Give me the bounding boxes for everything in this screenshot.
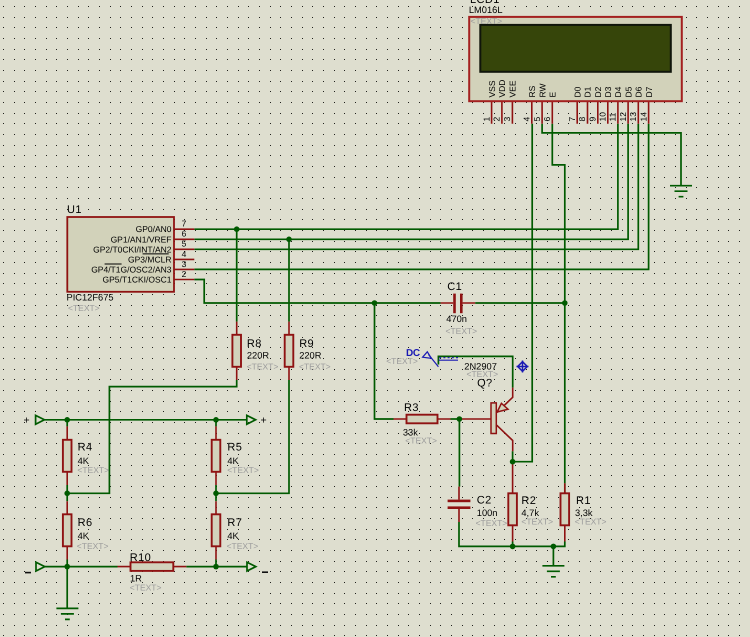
resistor R1: [561, 483, 570, 541]
svg-text:VEE: VEE: [508, 80, 518, 97]
svg-text:<TEXT>: <TEXT>: [77, 465, 109, 475]
wire D4 net: LCD pin11 down, left along y=229 to U1 GP0/AN0: [194, 124, 618, 230]
wire R4 top stub: [66, 420, 68, 427]
svg-text:11: 11: [608, 112, 618, 121]
svg-text:1: 1: [481, 117, 491, 122]
junction Q2 collector / RS / R2: [510, 459, 516, 465]
wire R9 top to GP1 wire: [288, 239, 290, 321]
svg-text:GP3/MCLR: GP3/MCLR: [128, 254, 171, 264]
svg-text:R5: R5: [227, 442, 242, 454]
svg-text:<TEXT>: <TEXT>: [471, 16, 503, 26]
svg-text:9: 9: [588, 117, 598, 122]
wire Q2 emitter up and left to DC probe: [438, 356, 512, 387]
svg-text:220R: 220R: [299, 351, 322, 361]
svg-text:LM016L: LM016L: [469, 5, 503, 15]
svg-text:2: 2: [492, 117, 502, 122]
svg-text:GP2/T0CKI/INT/AN2: GP2/T0CKI/INT/AN2: [93, 244, 172, 254]
svg-text:5: 5: [532, 117, 542, 122]
ground symbol mid bottom: [542, 546, 564, 576]
svg-text:<TEXT>: <TEXT>: [68, 303, 100, 313]
U1 pin 6 stub GP1/AN1/VREF: [174, 238, 194, 240]
junction + rail / R5: [213, 417, 219, 423]
svg-text:GP0/AN0: GP0/AN0: [136, 224, 172, 234]
svg-text:6: 6: [182, 229, 187, 239]
resistor R9: [285, 322, 294, 380]
wire D7 net: LCD pin14 down, left along y=269 to U1 GP4: [194, 124, 648, 270]
junction R3 / Q2 base / C2: [457, 416, 463, 422]
terminal arrow + left: [36, 415, 45, 424]
resistor R7: [212, 501, 221, 559]
U1 pin 4 stub GP3/MCLR: [174, 258, 194, 260]
junction GP1 wire / R9: [286, 237, 292, 243]
wire R1 top stub from E net: [564, 483, 566, 493]
svg-text:D2: D2: [593, 86, 603, 97]
svg-text:<TEXT>: <TEXT>: [227, 465, 259, 475]
overbar T1G: [105, 263, 122, 265]
wire Q2 collector node right to RS vertical: [512, 451, 514, 462]
wire R6 bottom to - rail: [66, 560, 68, 567]
svg-text:8: 8: [577, 117, 587, 122]
junction C1 wire / E net: [562, 300, 568, 306]
svg-text:3: 3: [502, 117, 512, 122]
wire R5 top stub: [215, 420, 217, 427]
svg-text:D3: D3: [603, 86, 613, 97]
svg-text:RW: RW: [537, 83, 547, 97]
U1 pin 5 stub GP2: [174, 248, 194, 250]
svg-text:+: +: [24, 414, 30, 426]
junction bottom rail / R2: [510, 544, 516, 550]
LCD display LCD1 LM016L body: [469, 17, 682, 101]
wire R2 bottom stub: [512, 542, 514, 547]
svg-text:D4: D4: [613, 86, 623, 97]
junction - rail / R7: [213, 564, 219, 570]
wire C2 bottom to bottom rail: [459, 522, 513, 546]
ground symbol bottom left: [56, 567, 78, 620]
label - right: [262, 571, 268, 573]
svg-text:D6: D6: [634, 86, 644, 97]
wire node A: C1 wire junction down to R3 left: [375, 303, 394, 419]
wire R5 bottom to R7 top: [215, 485, 217, 501]
svg-text:470n: 470n: [446, 314, 467, 324]
svg-text:D7: D7: [644, 86, 654, 97]
svg-text:R8: R8: [247, 338, 262, 350]
wire - rail left segment: [45, 566, 118, 568]
resistor R8: [232, 322, 241, 380]
svg-text:<TEXT>: <TEXT>: [467, 369, 499, 379]
svg-text:GP1/AN1/VREF: GP1/AN1/VREF: [111, 234, 172, 244]
junction + rail / R4: [64, 417, 70, 423]
LCD1 pins 1-14 stubs: [492, 101, 649, 124]
IC U1 PIC12F675 body: [67, 217, 174, 292]
svg-text:<TEXT>: <TEXT>: [575, 517, 607, 527]
junction bottom rail / ground: [551, 544, 557, 550]
svg-text:VDD: VDD: [497, 80, 507, 98]
transistor Q2 2N2907 (PNP): [462, 388, 513, 452]
terminal arrow - right: [247, 562, 256, 571]
svg-text:E: E: [548, 92, 558, 98]
svg-text:GP5/T1CKI/OSC1: GP5/T1CKI/OSC1: [103, 275, 172, 285]
svg-text:R2: R2: [521, 495, 536, 507]
wire RS net: LCD pin4 down to collector node, left to junction: [513, 124, 533, 462]
svg-text:<TEXT>: <TEXT>: [521, 517, 553, 527]
resistor R6: [63, 501, 72, 559]
junction GP0 wire / R8: [234, 226, 240, 232]
svg-text:R6: R6: [78, 517, 93, 529]
svg-text:6: 6: [542, 117, 552, 122]
svg-text:4K: 4K: [227, 531, 239, 541]
overbar MCLR: [143, 253, 169, 255]
svg-text:12: 12: [618, 112, 628, 122]
svg-text:<TEXT>: <TEXT>: [299, 361, 331, 371]
wire bottom rail to R1 bottom: [513, 542, 565, 547]
svg-text:<TEXT>: <TEXT>: [77, 541, 109, 551]
wire R8 bottom left-down to R4/R6 node: [67, 380, 237, 493]
svg-text:C2: C2: [477, 494, 492, 506]
U1 pin 2 stub GP5: [174, 279, 194, 281]
svg-text:5: 5: [182, 239, 187, 249]
svg-text:D0: D0: [572, 86, 582, 97]
svg-text:2: 2: [182, 269, 187, 279]
svg-text:R9: R9: [299, 338, 314, 350]
svg-text:R10: R10: [130, 552, 151, 564]
svg-text:GP4/T1G/OSC2/AN3: GP4/T1G/OSC2/AN3: [91, 264, 172, 274]
svg-text:Q?: Q?: [477, 378, 492, 390]
wire D6 net: LCD pin13 down, left along y=249 to U1 GP2: [194, 124, 638, 250]
junction node A on C1 wire: [372, 300, 378, 306]
resistor R5: [212, 426, 221, 485]
svg-text:DC: DC: [406, 348, 420, 359]
svg-text:4K: 4K: [78, 531, 90, 541]
resistor R3 (horizontal): [394, 415, 451, 424]
svg-text:3: 3: [182, 259, 187, 269]
svg-text:R1: R1: [576, 495, 591, 507]
DC voltage probe arrow: [423, 352, 458, 367]
junction - rail / R6 / ground: [64, 564, 70, 570]
svg-text:13: 13: [628, 112, 638, 122]
wire U1 GP5/OSC1 to C1 left plate: [194, 280, 440, 304]
svg-text:D5: D5: [623, 86, 633, 97]
svg-text:<TEXT>: <TEXT>: [446, 326, 478, 336]
svg-text:<TEXT>: <TEXT>: [130, 583, 162, 593]
wire R9 bottom down to R5/R7 node: [216, 380, 289, 493]
svg-text:R7: R7: [227, 517, 242, 529]
wire R4 bottom to R6 top: [66, 485, 68, 501]
wire + rail: [44, 419, 246, 421]
svg-text:14: 14: [638, 112, 648, 122]
svg-text:VSS: VSS: [487, 80, 497, 97]
wire E net: LCD pin6 down with jog, to R1 top: [552, 124, 565, 484]
junction R4/R6 node: [64, 491, 70, 497]
svg-text:<TEXT>: <TEXT>: [476, 518, 508, 528]
svg-text:R4: R4: [78, 442, 93, 454]
svg-text:C1: C1: [447, 281, 462, 293]
svg-text:U1: U1: [67, 204, 82, 216]
wire R8 top to GP0 wire: [236, 229, 238, 321]
svg-text:4: 4: [182, 249, 187, 259]
terminal arrow - left: [36, 562, 45, 571]
resistor R10 (horizontal): [118, 562, 187, 571]
svg-text:<TEXT>: <TEXT>: [227, 541, 259, 551]
wire R3 right to base node: [451, 418, 460, 420]
svg-text:+: +: [261, 414, 267, 426]
svg-text:<TEXT>: <TEXT>: [405, 436, 437, 446]
wire base node down to C2 top: [458, 419, 460, 487]
wire D5 net: LCD pin12 down, left along y=239 to U1 GP1/AN1/VREF: [194, 124, 628, 240]
resistor R4: [63, 426, 72, 485]
capacitor C1 (horizontal): [441, 294, 476, 314]
svg-text:220R: 220R: [247, 351, 270, 361]
svg-text:PIC12F675: PIC12F675: [67, 293, 114, 303]
U1 pin 7 stub GP0/AN0: [174, 228, 194, 230]
svg-text:D1: D1: [583, 86, 593, 97]
svg-text:<TEXT>: <TEXT>: [247, 361, 279, 371]
ground symbol for RW net: [670, 186, 692, 197]
svg-text:4: 4: [522, 117, 532, 122]
resistor R2: [508, 462, 517, 542]
capacitor C2 (vertical): [448, 487, 471, 522]
terminal arrow + right: [247, 415, 256, 424]
svg-text:10: 10: [598, 112, 608, 122]
U1 pin 3 stub GP4: [174, 268, 194, 270]
origin compass marker (blue): [517, 361, 529, 373]
svg-text:R3: R3: [404, 402, 419, 414]
wire R7 bottom to - rail: [215, 560, 217, 567]
svg-text:7: 7: [182, 219, 187, 229]
svg-text:RS: RS: [527, 85, 537, 97]
junction R5/R7 node: [213, 491, 219, 497]
wire RW net: LCD pin5 to ground at right: [542, 124, 681, 186]
label - left: [25, 572, 31, 574]
svg-text:100n: 100n: [477, 508, 498, 518]
svg-text:7: 7: [567, 117, 577, 122]
wire C1 right plate to E net junction: [475, 302, 565, 304]
wire - rail right segment: [186, 566, 247, 568]
